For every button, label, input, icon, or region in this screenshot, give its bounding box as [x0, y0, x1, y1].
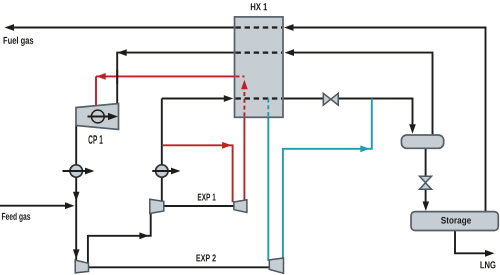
teal wire HX bottom to EXP2 expander inlet	[267, 117, 269, 261]
red dashed inside HX horizontal	[235, 75, 245, 77]
dashed stream recycle inside HX	[235, 51, 284, 53]
wire boil-off gas from Storage up and left into HX	[292, 28, 486, 213]
heat exchanger HX 1	[235, 17, 284, 117]
red wire HX left to CP1 inlet	[96, 76, 235, 105]
red wire EXP1 expander outlet up to HX bottom	[243, 117, 245, 200]
CP1 flow arrow	[88, 116, 109, 118]
valve 1 (JT valve after HX)	[323, 93, 331, 105]
wire HX right to valve	[283, 98, 324, 100]
booster of EXP1 (left trapezoid)	[150, 199, 164, 213]
red dashed stream inside HX vertical with arrow (over fill)	[243, 89, 245, 116]
wire valve to storage	[425, 189, 427, 202]
wire CP1 discharge down through cooler to EXP2 booster	[75, 126, 77, 261]
label EXP 1	[198, 194, 216, 201]
compressor CP1	[76, 104, 119, 130]
wire EXP1 booster outlet up through cooler	[161, 99, 163, 201]
expander EXP2 (right trapezoid)	[269, 258, 283, 273]
wire separator bottom to valve	[425, 148, 427, 176]
dashed stream fuel gas inside HX (over fill)	[236, 26, 283, 28]
label Fuel gas	[4, 37, 34, 46]
wire EXP1 shaft	[164, 205, 234, 207]
expander EXP1 (right trapezoid)	[234, 200, 247, 213]
booster of EXP2 (left trapezoid)	[75, 260, 88, 273]
red wire tap to EXP1 expander inlet	[162, 145, 233, 202]
CP1 circle	[91, 110, 104, 123]
wire crossing patch: black over red	[116, 70, 118, 84]
wire valve to separator	[338, 99, 413, 126]
wire separator vapor up and left into HX	[293, 53, 433, 135]
dashed stream main inside HX (over fill)	[236, 97, 283, 99]
label LNG	[480, 261, 495, 268]
cooler 1	[70, 165, 82, 177]
teal wire EXP2 expander outlet up right up to main line	[283, 99, 372, 259]
label HX 1	[251, 3, 267, 10]
red dashed inside HX vertical with up arrow	[243, 89, 245, 117]
teal dashed inside HX	[267, 99, 269, 118]
wire HX left at mid level to CP1 inlet	[117, 53, 234, 104]
teal dashed stream inside HX (over fill)	[267, 99, 269, 117]
wire EXP2 shaft	[89, 266, 270, 268]
dashed stream main inside HX	[235, 97, 284, 99]
label EXP 2	[196, 254, 215, 261]
label CP 1	[88, 135, 102, 144]
wire EXP2 booster outlet up and right and up to EXP1 booster	[88, 213, 151, 263]
valve 2 (letdown valve to storage)	[420, 176, 432, 182]
label Feed gas	[2, 213, 30, 222]
wire fuel gas out of HX to left arrow	[12, 27, 235, 29]
wire into HX main stream	[162, 98, 224, 100]
dashed stream fuel gas inside HX	[235, 26, 284, 28]
separator vessel	[401, 135, 443, 148]
label Storage	[441, 217, 471, 226]
wire storage bottom to LNG arrow	[455, 231, 486, 254]
red dashed stream inside HX horizontal (over fill)	[236, 75, 245, 77]
storage tank	[411, 212, 498, 231]
wire feed gas into tee	[0, 205, 66, 207]
cooler 2	[156, 165, 168, 177]
dashed stream recycle inside HX (over fill)	[236, 51, 283, 53]
